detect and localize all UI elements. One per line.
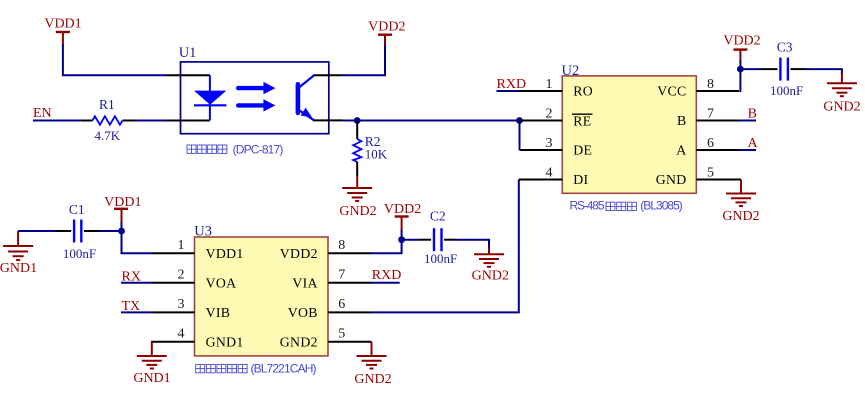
wire R1 to U1	[137, 120, 167, 122]
wire C1 to junction	[100, 230, 122, 232]
svg-text:10K: 10K	[365, 147, 388, 162]
wire C3 to GND2	[806, 69, 842, 74]
wire B stub	[740, 120, 757, 122]
wire U3 pin8 to VDD2 jog	[371, 240, 402, 254]
svg-text:GND: GND	[656, 172, 687, 187]
power bar VDD2	[733, 48, 747, 50]
svg-text:RE: RE	[573, 113, 591, 128]
svg-text:VDD1: VDD1	[44, 16, 81, 31]
svg-text:GND1: GND1	[0, 261, 37, 276]
svg-text:8: 8	[707, 77, 714, 92]
wire TX stub	[121, 311, 152, 313]
junction node RE/DE	[516, 117, 523, 124]
junction node R2	[354, 117, 361, 124]
U1 LED anode line	[209, 75, 211, 120]
U3 pin 8	[328, 252, 371, 254]
svg-text:7: 7	[338, 268, 345, 283]
capacitor C3 100nF	[761, 68, 778, 70]
U1 phototransistor emitter	[298, 110, 314, 121]
svg-text:GND2: GND2	[823, 100, 860, 115]
U3 pin 3	[152, 311, 195, 313]
svg-text:A: A	[676, 143, 686, 158]
wire A stub	[740, 149, 757, 151]
svg-text:1: 1	[546, 77, 553, 92]
power bar VDD2	[378, 34, 392, 36]
U3 pin 1	[152, 252, 195, 254]
svg-text:RXD: RXD	[497, 77, 527, 92]
junction node VCC	[737, 66, 744, 73]
wire U1 emitter to U2 RE	[343, 120, 520, 122]
svg-text:RS-485: RS-485	[570, 199, 605, 213]
U2 pin 5	[696, 179, 741, 181]
wire junction to C3	[740, 68, 761, 70]
U1 LED triangle	[194, 91, 226, 105]
U1 pin 3 (emitter)	[313, 119, 343, 121]
ground GND2 (below R2)	[342, 176, 372, 201]
wire VDD2 to junction	[739, 61, 741, 70]
U3 pin 5	[328, 341, 372, 343]
power riser VDD1	[62, 32, 64, 45]
U3 comment 数字隔离器 (BL7221CAH)	[196, 364, 247, 372]
svg-text:6: 6	[707, 136, 714, 151]
U1 emitter arrowhead	[301, 108, 313, 118]
wire RXD stub (U3)	[371, 282, 400, 284]
wire RX stub	[121, 282, 152, 284]
svg-text:GND1: GND1	[206, 334, 244, 349]
svg-text:B: B	[677, 113, 687, 128]
wire GND1 to C1	[18, 230, 55, 232]
svg-text:VIB: VIB	[206, 305, 231, 320]
capacitor C1 100nF	[55, 230, 71, 232]
svg-text:GND2: GND2	[354, 372, 391, 387]
capacitor C2 100nF	[419, 239, 431, 241]
svg-text:C2: C2	[430, 209, 446, 224]
junction node VDD2/C2	[398, 236, 405, 243]
svg-text:R1: R1	[99, 97, 115, 112]
svg-text:100nF: 100nF	[770, 83, 803, 98]
U3 pin 6	[328, 311, 371, 313]
svg-text:VDD2: VDD2	[384, 202, 421, 217]
U2 pin 6	[696, 149, 739, 151]
ground GND1 (left)	[3, 231, 33, 260]
power port VDD2 (middle)	[395, 217, 409, 231]
svg-text:VDD1: VDD1	[104, 195, 141, 210]
wire C2 to GND2	[456, 240, 489, 248]
U3 pin 7	[328, 282, 371, 284]
wire VDD1 horizontal to U1 pin	[62, 74, 167, 76]
svg-text:DE: DE	[573, 143, 592, 158]
U2 pin 2	[520, 120, 563, 122]
svg-text:C3: C3	[777, 39, 793, 54]
svg-text:VOB: VOB	[288, 305, 318, 320]
svg-text:100nF: 100nF	[424, 251, 457, 266]
power port VDD1 (middle)	[114, 209, 128, 223]
U2 pin 7	[696, 120, 739, 122]
U1 comment 低速光耦 (DPC-817)	[187, 145, 227, 153]
resistor R1 4.7K	[80, 120, 137, 122]
wire VDD2 riser (middle)	[401, 230, 403, 240]
U1 coupling arrow top	[238, 86, 264, 90]
svg-text:U1: U1	[179, 45, 197, 61]
svg-text:VIA: VIA	[292, 275, 317, 290]
svg-text:3: 3	[546, 136, 553, 151]
wire DI vertical	[518, 180, 520, 313]
wire VOB to DI	[371, 311, 520, 313]
svg-text:B: B	[748, 106, 757, 121]
junction node VDD1/C1	[118, 228, 125, 235]
U2 body	[562, 76, 696, 193]
svg-text:3: 3	[178, 297, 185, 312]
wire VDD2 to U1	[342, 74, 387, 76]
U1 phototransistor collector	[298, 75, 314, 88]
resistor R2 10K	[356, 121, 358, 140]
wire RE junction down to DE	[519, 121, 521, 151]
svg-text:GND2: GND2	[339, 204, 376, 219]
U2 pin 4	[519, 179, 563, 181]
svg-text:1: 1	[178, 238, 185, 253]
svg-text:A: A	[747, 136, 758, 151]
svg-text:4: 4	[546, 165, 553, 180]
svg-text:VOA: VOA	[206, 275, 237, 290]
svg-text:VDD2: VDD2	[280, 246, 318, 261]
svg-text:7: 7	[707, 106, 714, 121]
svg-text:VDD2: VDD2	[368, 19, 405, 34]
svg-text:GND2: GND2	[280, 334, 318, 349]
svg-text:GND1: GND1	[133, 371, 170, 386]
svg-text:RXD: RXD	[372, 268, 402, 283]
power bar VDD1	[56, 31, 70, 33]
U1 LED cathode bar	[194, 104, 226, 106]
ground GND2 (C2)	[474, 247, 504, 267]
ground GND2 (C3)	[827, 73, 857, 96]
svg-text:2: 2	[178, 268, 185, 283]
power riser VDD2	[739, 50, 741, 62]
svg-text:DI: DI	[573, 172, 588, 187]
wire VDD1 vertical	[62, 44, 64, 75]
svg-text:8: 8	[338, 238, 345, 253]
svg-text:(BL3085): (BL3085)	[640, 199, 683, 213]
U1 pin 2 (cathode)	[167, 120, 210, 122]
U3 pin 2	[152, 282, 195, 284]
U2 pin 8	[696, 90, 739, 92]
svg-text:RO: RO	[573, 84, 593, 99]
svg-text:2: 2	[546, 106, 553, 121]
svg-text:5: 5	[707, 165, 714, 180]
wire VDD1 riser	[121, 221, 123, 231]
ground GND2 (U2 pin5)	[726, 180, 756, 207]
svg-text:EN: EN	[33, 106, 52, 121]
svg-text:(BL7221CAH): (BL7221CAH)	[251, 361, 317, 375]
U2 pin 1	[521, 90, 563, 92]
wire VCC riser	[739, 69, 741, 92]
svg-text:(DPC-817): (DPC-817)	[233, 142, 284, 156]
U1 body rectangle	[181, 62, 329, 134]
wire EN	[33, 120, 80, 122]
svg-text:GND2: GND2	[722, 209, 759, 224]
U2 pin 3	[520, 149, 563, 151]
U1 pin 1 (anode)	[167, 74, 210, 76]
U3 pin 4	[151, 341, 195, 343]
svg-text:5: 5	[338, 327, 345, 342]
svg-text:4.7K: 4.7K	[95, 128, 121, 143]
power riser VDD2	[384, 35, 386, 46]
svg-text:6: 6	[338, 297, 345, 312]
wire RXD stub	[497, 90, 521, 92]
U1 coupling arrow bottom	[238, 103, 264, 107]
ground GND1 (U3 pin4)	[137, 342, 167, 369]
svg-text:4: 4	[178, 327, 185, 342]
U1 pin 4 (collector)	[313, 74, 341, 76]
svg-text:VDD1: VDD1	[206, 246, 244, 261]
wire VDD2 down	[384, 45, 386, 75]
ground GND2 (U3 pin5)	[357, 342, 387, 369]
svg-text:VDD2: VDD2	[723, 34, 760, 49]
svg-text:C1: C1	[69, 202, 85, 217]
svg-text:GND2: GND2	[472, 268, 509, 283]
svg-text:VCC: VCC	[657, 84, 686, 99]
wire junction to C2	[402, 239, 420, 241]
svg-text:100nF: 100nF	[63, 246, 96, 261]
wire junction down to U3 pin1	[122, 231, 153, 253]
U3 body	[195, 237, 329, 356]
U1 phototransistor base bar	[296, 84, 301, 113]
